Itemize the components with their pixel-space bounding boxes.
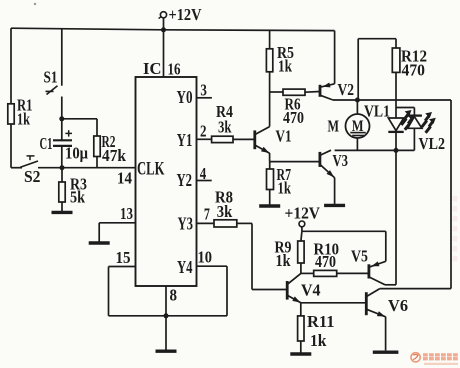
svg-text:470: 470 <box>283 108 304 127</box>
svg-text:R11: R11 <box>307 312 335 331</box>
svg-text:Y1: Y1 <box>177 130 193 150</box>
svg-text:Y4: Y4 <box>177 257 193 277</box>
svg-text:4: 4 <box>200 164 207 183</box>
svg-text:470: 470 <box>315 252 336 271</box>
svg-text:470: 470 <box>402 60 426 79</box>
svg-text:M: M <box>328 117 340 136</box>
svg-text:1k: 1k <box>278 57 292 76</box>
svg-text:Y3: Y3 <box>178 213 194 233</box>
svg-text:VL1: VL1 <box>364 101 390 120</box>
svg-text:3k: 3k <box>217 202 233 221</box>
svg-text:VL2: VL2 <box>419 134 446 153</box>
svg-text:V2: V2 <box>338 80 355 99</box>
svg-text:10: 10 <box>198 247 213 266</box>
svg-text:V5: V5 <box>351 247 368 266</box>
svg-text:Y2: Y2 <box>177 170 193 190</box>
svg-text:3k: 3k <box>218 117 232 136</box>
svg-text:13: 13 <box>120 204 133 223</box>
svg-text:IC: IC <box>143 59 162 78</box>
svg-text:16: 16 <box>168 59 181 78</box>
svg-text:2: 2 <box>200 121 207 140</box>
svg-text:V3: V3 <box>333 151 349 170</box>
svg-text:V6: V6 <box>388 296 408 315</box>
svg-text:14: 14 <box>117 168 132 187</box>
svg-text:1k: 1k <box>278 179 292 198</box>
svg-text:S2: S2 <box>24 167 41 186</box>
svg-text:+12V: +12V <box>285 204 321 223</box>
svg-text:1k: 1k <box>17 110 30 129</box>
svg-text:S1: S1 <box>44 68 58 87</box>
svg-text:7: 7 <box>204 205 210 224</box>
svg-text:Y0: Y0 <box>177 87 193 107</box>
svg-text:47k: 47k <box>102 146 126 165</box>
svg-text:3: 3 <box>200 81 207 100</box>
svg-text:+12V: +12V <box>169 5 203 24</box>
svg-text:CLK: CLK <box>137 159 165 179</box>
svg-text:8: 8 <box>170 286 178 305</box>
svg-text:M: M <box>352 118 364 135</box>
svg-text:1k: 1k <box>276 251 291 270</box>
svg-text:C1: C1 <box>40 134 53 153</box>
svg-text:V1: V1 <box>276 126 292 145</box>
svg-text:15: 15 <box>116 248 131 267</box>
svg-text:10μ: 10μ <box>65 143 88 162</box>
svg-text:V4: V4 <box>301 281 321 300</box>
svg-text:1k: 1k <box>310 331 327 350</box>
svg-text:5k: 5k <box>70 188 85 207</box>
